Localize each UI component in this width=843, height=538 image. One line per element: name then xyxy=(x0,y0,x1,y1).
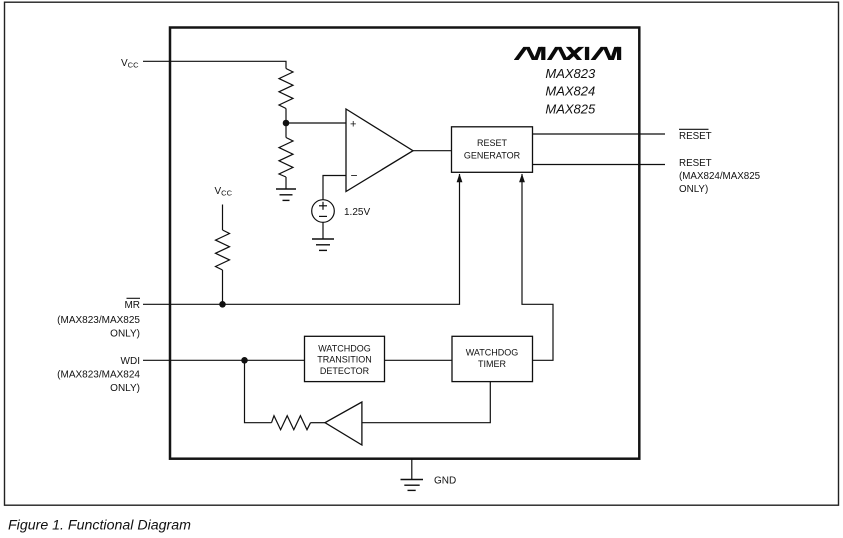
wire comparator - input to reference xyxy=(323,176,346,200)
wire R3 to MR line xyxy=(222,270,224,304)
wire detector to timer xyxy=(385,359,453,361)
svg-text:ONLY): ONLY) xyxy=(679,184,708,195)
svg-text:WATCHDOG: WATCHDOG xyxy=(318,344,371,354)
svg-text:(MAX823/MAX824: (MAX823/MAX824 xyxy=(57,370,140,381)
block WATCHDOG TIMER xyxy=(452,336,533,381)
IC boundary box MAX823/MAX824/MAX825 xyxy=(170,28,639,459)
node RESETbar label xyxy=(679,129,712,142)
node A junction dot xyxy=(283,120,290,127)
node RESET label (MAX824/MAX825 ONLY) xyxy=(679,158,761,195)
node WDI input label xyxy=(57,356,140,394)
svg-text:VCC: VCC xyxy=(121,58,139,70)
svg-text:VCC: VCC xyxy=(215,186,233,198)
wire timer to inverter xyxy=(362,382,490,423)
svg-text:MAX824: MAX824 xyxy=(545,84,595,99)
svg-text:WDI: WDI xyxy=(121,356,140,367)
inverter U2 xyxy=(325,402,362,445)
node WDI junction dot xyxy=(241,357,248,364)
part numbers MAX823 MAX824 MAX825 xyxy=(545,66,596,117)
wire V1 to ground xyxy=(322,222,324,239)
resistor R4 (feedback) xyxy=(272,416,311,430)
wire RESET (824/825) output xyxy=(533,164,666,166)
block RESET GENERATOR xyxy=(452,127,533,173)
svg-text:1.25V: 1.25V xyxy=(344,207,370,218)
ground (reference) xyxy=(312,239,334,250)
svg-text:RESET: RESET xyxy=(679,158,712,169)
svg-text:ONLY): ONLY) xyxy=(110,329,140,340)
wire comparator output to reset generator xyxy=(413,150,452,152)
svg-text:RESET: RESET xyxy=(477,138,508,148)
op-amp comparator U1 xyxy=(346,109,413,192)
svg-text:GENERATOR: GENERATOR xyxy=(464,151,521,161)
svg-text:WATCHDOG: WATCHDOG xyxy=(466,348,519,358)
wire VCC to divider xyxy=(143,61,286,68)
svg-text:GND: GND xyxy=(434,476,456,487)
wire inverter to R4 xyxy=(311,422,326,424)
svg-text:DETECTOR: DETECTOR xyxy=(320,366,370,376)
svg-text:MAX823: MAX823 xyxy=(545,66,596,81)
svg-text:RESET: RESET xyxy=(679,131,712,142)
svg-text:Figure 1. Functional Diagram: Figure 1. Functional Diagram xyxy=(8,518,191,534)
arrow into reset generator (MR path) xyxy=(457,174,463,183)
wire VCC2 to R3 xyxy=(222,205,224,231)
resistor R3 (MR pullup) xyxy=(216,230,230,270)
svg-text:ONLY): ONLY) xyxy=(110,383,140,394)
wire node A to comparator + xyxy=(286,122,346,124)
svg-text:TRANSITION: TRANSITION xyxy=(317,355,372,365)
node MR input label xyxy=(57,298,140,339)
wire MR to reset generator xyxy=(143,174,460,304)
svg-text:MR: MR xyxy=(124,300,140,311)
wire R4 to WDI node xyxy=(245,360,272,422)
svg-text:−: − xyxy=(351,169,358,183)
svg-text:+: + xyxy=(350,119,356,131)
voltage reference V1 1.25V xyxy=(312,200,335,223)
wire WDI to watchdog transition detector xyxy=(143,359,305,361)
arrow into reset generator (timer path) xyxy=(519,174,525,183)
svg-text:MAX825: MAX825 xyxy=(545,101,596,116)
node MR junction dot xyxy=(219,301,226,308)
wire R2 to ground xyxy=(285,177,287,189)
ground GND pin xyxy=(411,459,413,480)
wire timer output to reset generator xyxy=(522,174,553,360)
svg-text:(MAX824/MAX825: (MAX824/MAX825 xyxy=(679,171,761,182)
svg-text:TIMER: TIMER xyxy=(478,359,506,369)
ground (divider) xyxy=(276,189,296,200)
svg-text:(MAX823/MAX825: (MAX823/MAX825 xyxy=(57,315,140,326)
wire RESET output xyxy=(533,133,666,135)
wire node A to R2 xyxy=(285,123,287,138)
resistor R1 (upper divider) xyxy=(279,69,293,109)
wire R1 to node A xyxy=(285,109,287,124)
resistor R2 (lower divider) xyxy=(279,138,293,178)
block WATCHDOG TRANSITION DETECTOR xyxy=(305,336,385,381)
